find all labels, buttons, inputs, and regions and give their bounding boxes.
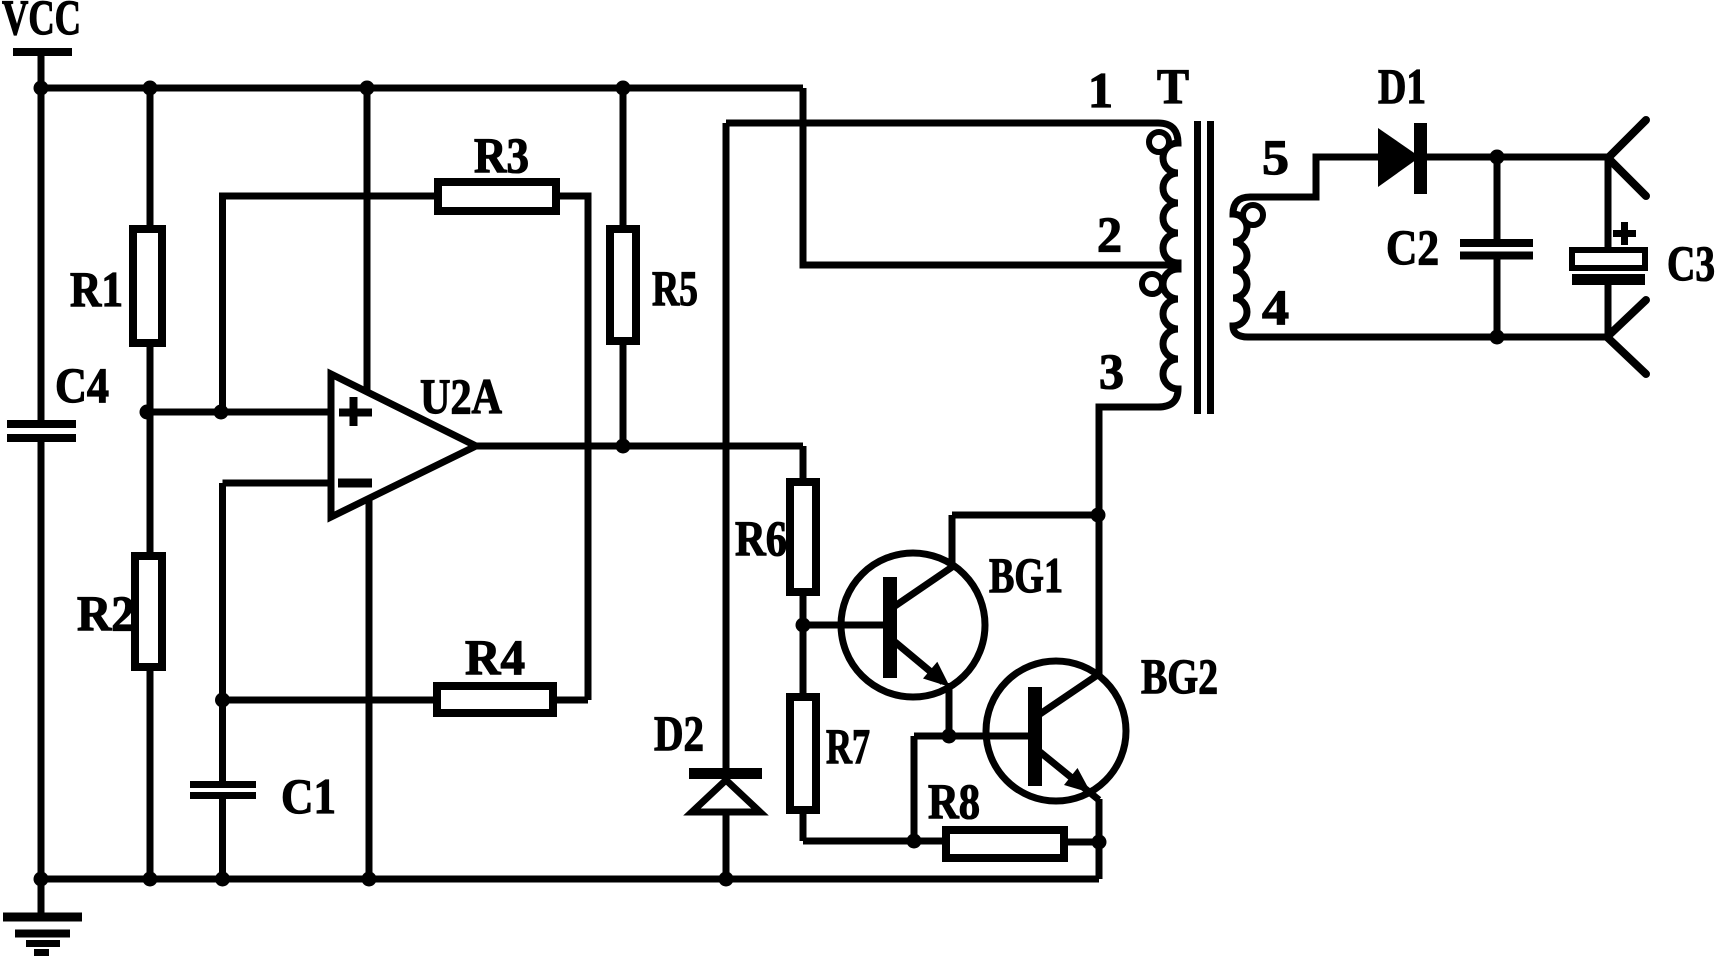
wire R5 top lead (620, 88, 627, 229)
svg-text:R8: R8 (928, 773, 980, 829)
output terminal top (1608, 120, 1646, 196)
wire R2 top lead (147, 412, 154, 556)
transformer phase dot top (1149, 132, 1169, 152)
wire R4 right lead (553, 697, 588, 704)
wire R7 bottom lead (800, 810, 807, 841)
svg-text:1: 1 (1088, 62, 1113, 118)
svg-text:R5: R5 (652, 260, 698, 316)
wire top rail (38, 85, 803, 92)
wire inverting input (223, 480, 333, 487)
diode D1 (1378, 123, 1427, 194)
VCC power symbol (13, 52, 72, 88)
svg-text:R4: R4 (465, 629, 525, 685)
transistor BG2 (986, 661, 1126, 801)
wire R3 left lead (219, 193, 438, 200)
svg-text:BG1: BG1 (989, 547, 1063, 603)
svg-text:C3: C3 (1667, 235, 1715, 291)
wire BG1 base lead (803, 622, 883, 629)
svg-text:R7: R7 (826, 718, 870, 774)
wire BG2 base horizontal (914, 733, 1028, 740)
svg-text:C4: C4 (55, 357, 109, 413)
svg-text:2: 2 (1097, 206, 1122, 262)
ground (3, 917, 82, 953)
wire inverting vertical (219, 483, 226, 781)
svg-text:D1: D1 (1378, 58, 1426, 114)
C3 plus mark (1613, 222, 1636, 245)
wire D2 top vertical (723, 123, 730, 768)
wire R7 to R8 (803, 838, 946, 845)
svg-text:R3: R3 (474, 127, 529, 183)
wire C3 top lead (1605, 158, 1612, 250)
svg-text:R2: R2 (77, 585, 135, 641)
svg-text:C2: C2 (1386, 219, 1439, 275)
transformer phase dot secondary (1243, 205, 1263, 225)
svg-text:VCC: VCC (2, 0, 81, 45)
resistor R1 (133, 229, 162, 343)
wire C2 top lead (1494, 157, 1501, 239)
node BG1 collector junction (1091, 508, 1106, 523)
opamp minus input mark (338, 479, 372, 488)
wire R1 top lead (147, 88, 154, 229)
capacitor C3 (1572, 250, 1645, 285)
wire C1 bottom lead (219, 799, 226, 879)
BG2 base bar (1028, 687, 1042, 786)
svg-text:R1: R1 (70, 261, 123, 317)
wire BG2 base lead (960, 733, 1028, 740)
svg-text:D2: D2 (654, 705, 704, 761)
wire output corner to R6 (800, 446, 807, 482)
wire left rail lower (38, 442, 45, 913)
node negative supply ground junction (362, 872, 377, 887)
BG2 emitter (1040, 752, 1099, 879)
svg-text:C1: C1 (281, 768, 336, 824)
resistor R5 (610, 229, 636, 341)
svg-text:R6: R6 (735, 510, 787, 566)
node R5 output junction (616, 439, 631, 454)
BG1 emitter (895, 642, 950, 736)
wire BG2 base corner vertical (911, 736, 918, 841)
op-amp U2A (331, 374, 476, 517)
capacitor C4 (7, 424, 76, 438)
node C2 bottom junction (1490, 330, 1505, 345)
transformer phase dot middle (1142, 274, 1162, 294)
node left rail ground junction (34, 872, 49, 887)
wire left rail upper (38, 88, 45, 420)
wire C3 bottom lead (1605, 285, 1612, 337)
node R1 top junction (143, 81, 158, 96)
wire pin1 horizontal and primary winding and pin3 (726, 123, 1178, 674)
wire R5 bottom lead (620, 341, 627, 446)
capacitor C1 (190, 785, 256, 796)
resistor R4 (437, 686, 553, 713)
transistor BG1 (841, 553, 985, 697)
diode D2 zener (689, 768, 762, 812)
svg-text:U2A: U2A (420, 368, 502, 424)
wire R2 bottom lead (147, 667, 154, 879)
node opamp supply junction (360, 81, 375, 96)
wire R6 bottom lead (800, 592, 807, 625)
transformer core (1198, 121, 1211, 414)
node VCC rail junction (34, 81, 49, 96)
wire bottom rail (41, 876, 1099, 883)
node R8 left junction (907, 834, 922, 849)
wire R3 R4 vertical (585, 193, 592, 701)
svg-text:5: 5 (1262, 129, 1289, 185)
wire top rail corner to pin2 (803, 88, 1176, 265)
wire D1 to output (1427, 154, 1608, 161)
wire R7 top lead (800, 625, 807, 697)
wire opamp negative supply (366, 497, 373, 879)
wire R1 bottom lead (147, 343, 154, 412)
wire noninverting input (146, 409, 332, 416)
BG1 base bar (883, 577, 897, 678)
wire opamp output (474, 443, 803, 450)
svg-text:BG2: BG2 (1141, 648, 1218, 704)
node BG1 emitter BG2 base junction (942, 729, 957, 744)
resistor R6 (790, 482, 816, 592)
BG1 collector (895, 515, 1098, 606)
output terminal bottom (1607, 300, 1646, 374)
resistor R7 (790, 697, 816, 810)
wire R4 left lead (223, 697, 438, 704)
resistor R3 (438, 182, 556, 211)
node feedback junction (214, 405, 229, 420)
node R2 ground junction (143, 872, 158, 887)
node C2 top junction (1490, 150, 1505, 165)
node R1 R2 junction (140, 405, 155, 420)
wire R3 right lead (556, 193, 588, 200)
node R4 C1 junction (215, 693, 230, 708)
capacitor C2 (1460, 243, 1533, 256)
wire R8 right lead (1064, 839, 1099, 846)
wire opamp positive supply (364, 88, 371, 390)
opamp plus input mark (339, 397, 372, 426)
node R6 R7 base junction (796, 618, 811, 633)
node C1 ground junction (215, 872, 230, 887)
resistor R8 (946, 830, 1064, 858)
secondary winding and pin5 pin4 wires (1233, 157, 1607, 337)
resistor R2 (135, 556, 162, 667)
node R5 top junction (616, 81, 631, 96)
wire feedback vertical (219, 196, 226, 412)
wire D2 bottom lead (723, 812, 730, 879)
svg-text:4: 4 (1262, 279, 1289, 335)
node R8 emitter junction (1092, 835, 1107, 850)
svg-text:T: T (1157, 58, 1189, 114)
wire C2 bottom lead (1494, 260, 1501, 338)
BG2 collector (1040, 674, 1099, 714)
svg-text:3: 3 (1099, 343, 1124, 399)
node D2 ground junction (719, 872, 734, 887)
